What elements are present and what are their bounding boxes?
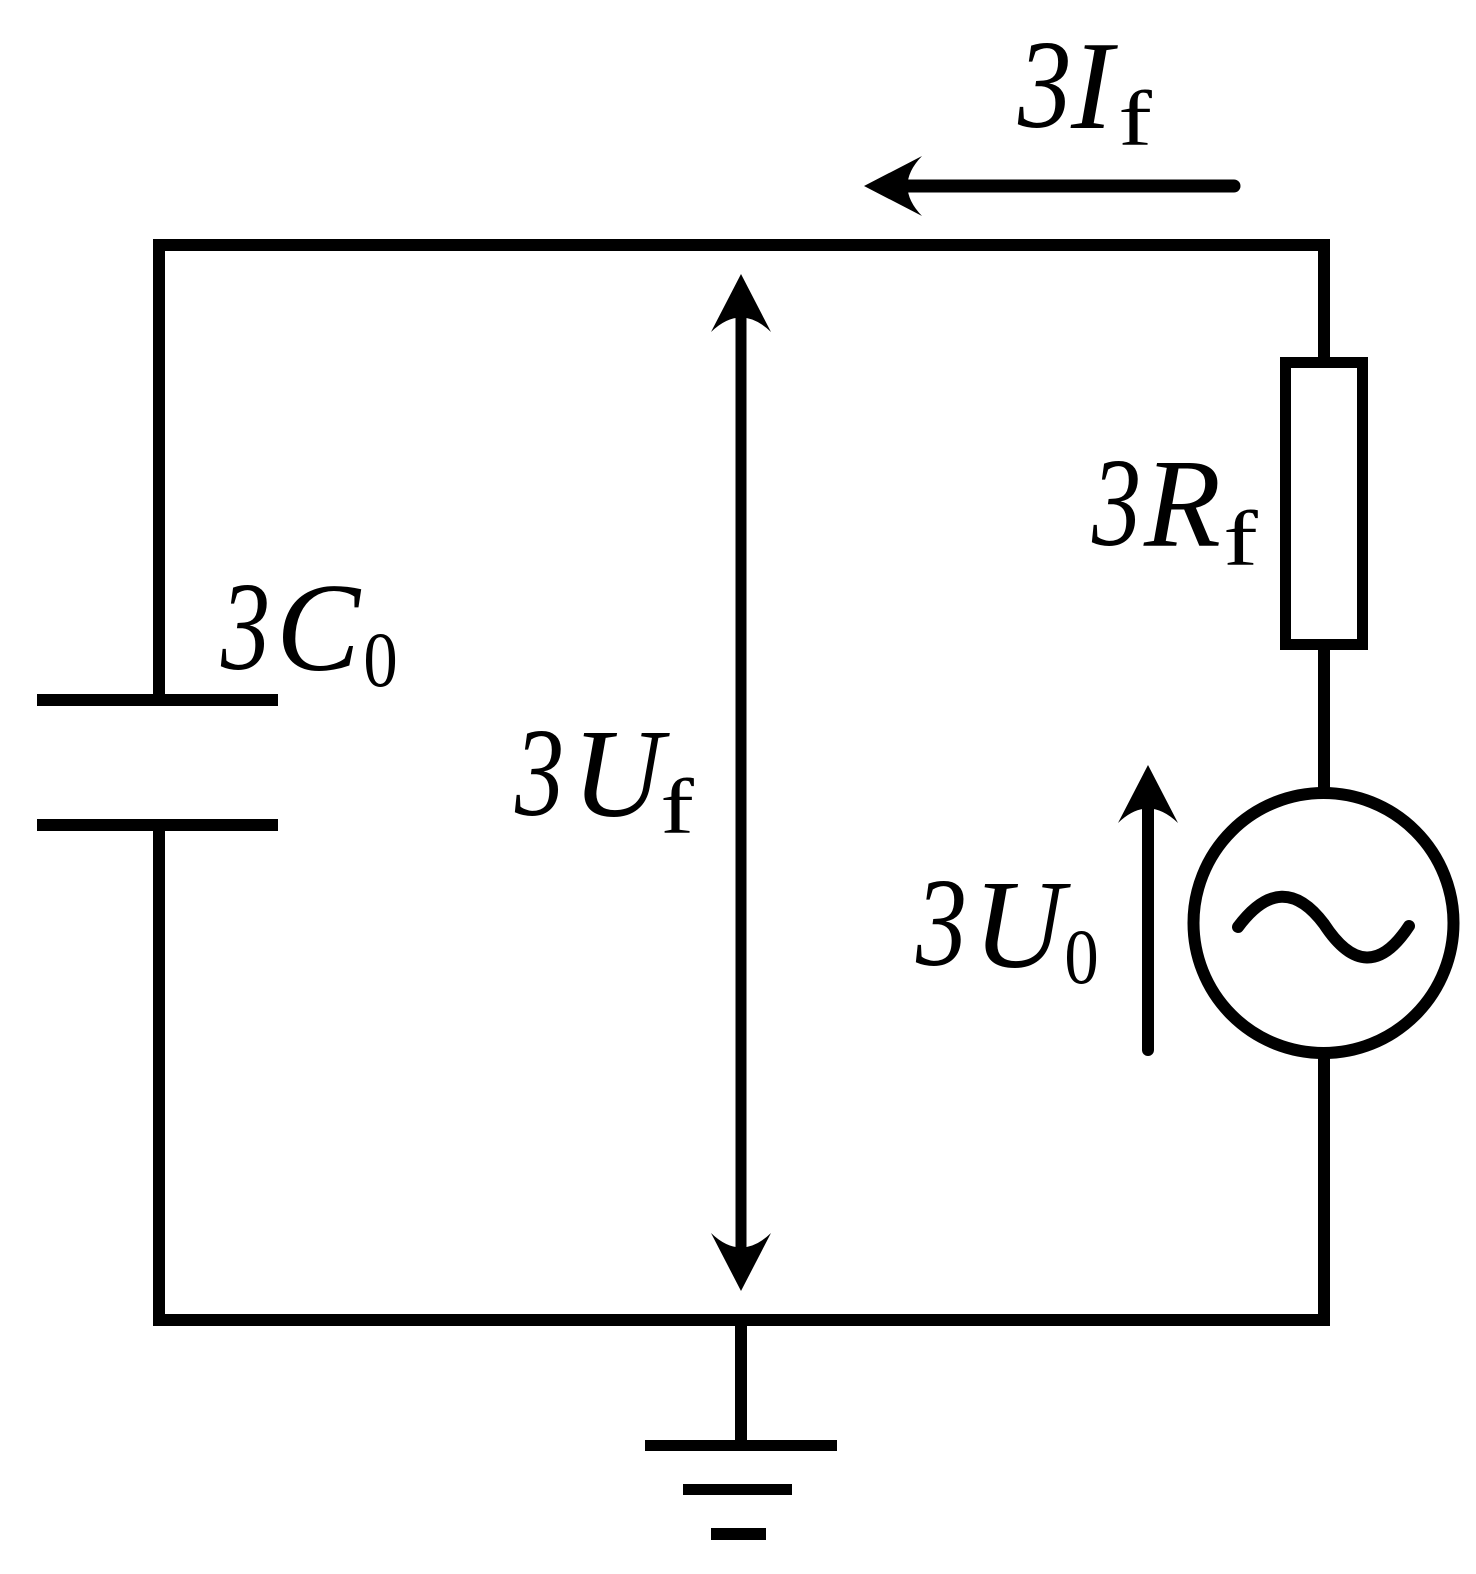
current arrow 3If <box>864 156 1234 216</box>
wire: left branch upper + top wire + right branch upper <box>159 245 1324 703</box>
svg-text:f: f <box>1223 495 1258 582</box>
svg-text:0: 0 <box>1064 914 1098 1000</box>
voltage arrow 3U0 <box>1118 765 1178 1050</box>
label 3Rf <box>1091 433 1258 582</box>
svg-text:I: I <box>1070 17 1118 156</box>
svg-text:R: R <box>1143 435 1221 574</box>
resistor 3Rf <box>1286 363 1363 645</box>
svg-text:f: f <box>660 765 694 851</box>
wire: left branch lower <box>153 825 165 1320</box>
svg-text:3: 3 <box>1091 433 1141 572</box>
wire: AC source to bottom wire <box>1318 1053 1330 1320</box>
svg-text:3: 3 <box>220 557 270 696</box>
svg-text:U: U <box>572 705 670 844</box>
bottom wire <box>153 1314 1330 1326</box>
ground <box>645 1320 837 1534</box>
label 3Uf <box>514 703 694 850</box>
AC source 3U0 <box>1194 793 1454 1053</box>
capacitor 3C0 <box>37 700 278 825</box>
label 3U0 <box>915 853 1099 1000</box>
svg-text:3: 3 <box>514 703 564 842</box>
svg-text:f: f <box>1118 77 1152 163</box>
svg-text:3: 3 <box>915 853 967 993</box>
svg-text:3: 3 <box>1017 16 1071 155</box>
svg-text:C: C <box>276 559 362 698</box>
label 3C0 <box>220 557 398 702</box>
wire: resistor to AC source <box>1318 645 1330 795</box>
svg-text:0: 0 <box>363 617 397 703</box>
svg-text:U: U <box>973 856 1071 995</box>
voltage arrow 3Uf (double-headed) <box>711 274 771 1291</box>
label 3If <box>1017 16 1152 162</box>
